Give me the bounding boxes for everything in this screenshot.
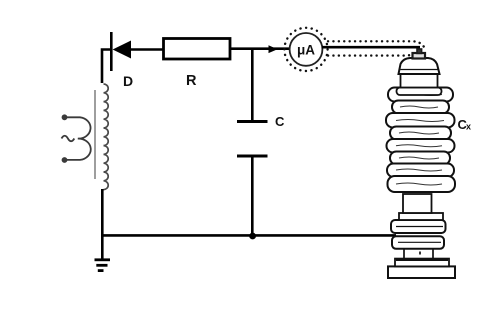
resistor R <box>164 39 231 90</box>
dome cap <box>399 58 440 74</box>
shed 4 <box>390 127 451 140</box>
top cylinder <box>401 74 438 88</box>
shed 5 <box>387 139 455 153</box>
svg-text:C: C <box>275 114 285 129</box>
svg-text:x: x <box>466 122 471 132</box>
base plate <box>388 266 455 278</box>
shed 2 <box>392 101 449 114</box>
arrow on wire into meter <box>269 45 278 53</box>
bushing Cx body <box>386 49 455 278</box>
step under neck <box>399 213 443 220</box>
shed 3 <box>386 113 455 128</box>
bottom rail wire <box>101 234 396 237</box>
shed 7 <box>387 164 454 178</box>
wire top-left corner to diode <box>102 50 111 84</box>
wire secondary bottom to bottom rail <box>101 189 104 237</box>
shed 8 <box>388 176 456 192</box>
shed 6 <box>390 152 450 165</box>
AC source symbol (~) <box>62 136 75 142</box>
support legs <box>404 249 433 259</box>
wire capacitor bottom to bottom rail <box>251 156 254 236</box>
capacitor C <box>237 114 285 156</box>
transformer T1: secondary winding <box>104 84 109 190</box>
lower flange band <box>392 236 444 249</box>
transformer T1: core <box>94 90 96 179</box>
wire meter to bushing top <box>322 46 420 49</box>
upper flange band <box>391 220 446 233</box>
mounting plate <box>395 259 449 267</box>
transformer T1: primary winding <box>62 114 91 163</box>
shed 1 <box>388 88 453 102</box>
guard lead (dotted, upper) <box>328 41 424 47</box>
ground <box>95 235 111 270</box>
terminal stem <box>413 53 426 59</box>
wire resistor to meter <box>230 47 289 50</box>
diode D <box>111 32 133 89</box>
svg-text:D: D <box>123 73 133 89</box>
wire diode to resistor <box>131 48 164 51</box>
microammeter U1 (uA) with guard ring <box>284 28 327 71</box>
svg-text:R: R <box>186 73 197 89</box>
shed texture lines <box>396 94 444 186</box>
svg-text:μA: μA <box>297 43 315 58</box>
top rim <box>397 88 442 96</box>
node: capacitor branch junction <box>251 49 254 122</box>
label Cx <box>458 117 472 132</box>
guard lead (dotted, lower) <box>328 54 410 57</box>
neck cylinder <box>403 194 432 213</box>
junction node dot <box>249 233 256 240</box>
